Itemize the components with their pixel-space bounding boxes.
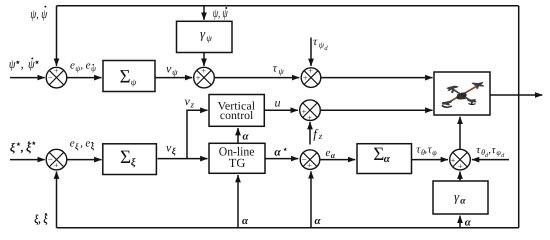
svg-text:γ: γ (200, 26, 206, 41)
svg-text:,: , (21, 57, 24, 71)
svg-text:e: e (70, 138, 75, 150)
svg-text:z: z (190, 99, 195, 109)
svg-text:e: e (326, 147, 331, 159)
svg-text:+: + (302, 106, 307, 116)
svg-text:−: − (302, 154, 307, 164)
svg-text:α: α (384, 153, 391, 165)
svg-text:ψ: ψ (28, 57, 35, 71)
svg-text:control: control (220, 110, 253, 122)
svg-text:Σ: Σ (120, 147, 131, 168)
svg-text:−: − (48, 73, 53, 83)
svg-text:ξ: ξ (131, 157, 136, 168)
svg-text:ψ, ψ: ψ, ψ (30, 7, 47, 21)
svg-text:α: α (465, 216, 472, 228)
svg-text:α: α (331, 151, 336, 160)
svg-text:+: + (303, 73, 308, 83)
svg-text:+: + (54, 160, 59, 170)
svg-text:τ: τ (273, 62, 278, 74)
svg-text:ψ: ψ (91, 64, 97, 73)
svg-text:,: , (80, 60, 83, 72)
svg-text:,: , (80, 138, 83, 150)
svg-text:e: e (85, 138, 90, 150)
svg-text:+: + (201, 66, 206, 76)
svg-text:+: + (451, 155, 456, 165)
svg-text:d: d (501, 152, 505, 159)
svg-text:ψ: ψ (206, 33, 212, 43)
svg-text:−: − (48, 154, 53, 164)
svg-text:γ: γ (454, 189, 460, 204)
svg-text:ψ: ψ (172, 67, 178, 77)
svg-text:ξ: ξ (91, 142, 95, 151)
svg-text:α: α (460, 196, 466, 206)
svg-text:e: e (86, 60, 91, 72)
svg-text:ξ: ξ (172, 146, 176, 156)
svg-text:+: + (196, 73, 201, 83)
svg-text:φ: φ (432, 148, 437, 157)
svg-text:+: + (458, 161, 463, 171)
svg-text:+: + (307, 160, 312, 170)
svg-text:α: α (274, 146, 281, 158)
svg-text:α: α (243, 131, 250, 143)
svg-text:+: + (308, 66, 313, 76)
svg-text:ξ: ξ (75, 142, 79, 151)
svg-text:+: + (307, 112, 312, 122)
svg-text:z: z (318, 131, 323, 141)
svg-text:τ: τ (313, 36, 318, 48)
svg-text:α: α (315, 215, 322, 227)
svg-text:d: d (324, 45, 328, 52)
svg-text:ψ: ψ (279, 66, 285, 76)
svg-text:Σ: Σ (373, 144, 384, 165)
svg-text:ξ: ξ (10, 141, 16, 155)
svg-text:ψ: ψ (131, 77, 137, 87)
svg-text:ψ: ψ (9, 57, 16, 71)
svg-text:u: u (275, 95, 281, 109)
svg-text:α: α (242, 215, 249, 227)
svg-text:,: , (20, 141, 24, 155)
svg-text:+: + (54, 66, 59, 76)
svg-text:TG: TG (229, 156, 246, 170)
svg-text:Σ: Σ (120, 66, 131, 87)
